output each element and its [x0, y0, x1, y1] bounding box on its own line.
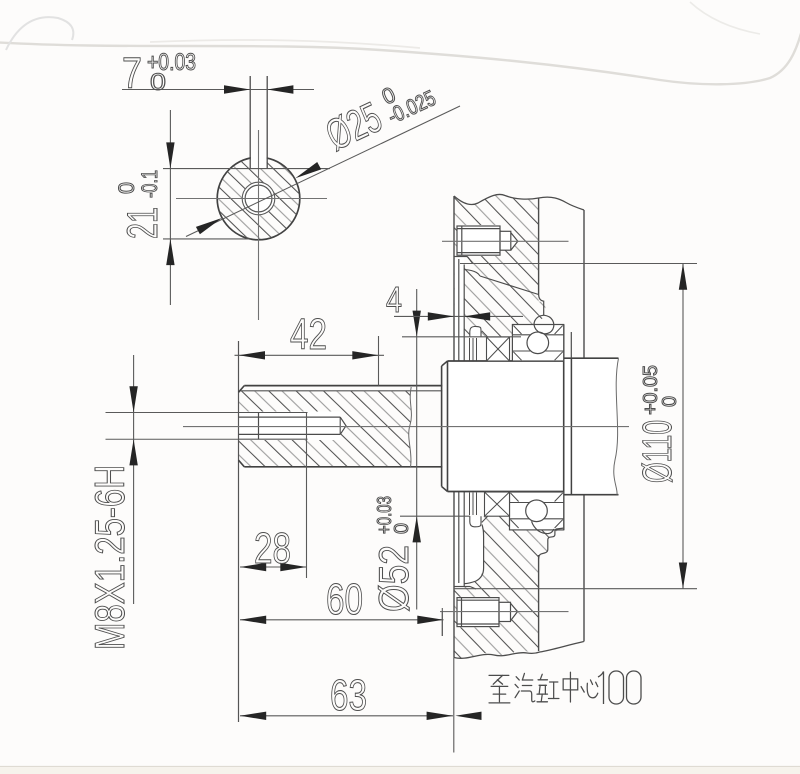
section break wavy line [409, 387, 412, 467]
hanzi qi [515, 673, 535, 701]
bottom boss chamfer [470, 587, 476, 590]
hatch bottom staircase patch [539, 528, 564, 555]
arrow 4 right [464, 312, 490, 320]
spigot chamfer bottom [442, 487, 448, 492]
text to-cylinder-center 100 [489, 672, 598, 703]
arrow 42 right [352, 351, 378, 359]
top bearing races [512, 334, 563, 336]
top boss bottom face [454, 256, 467, 258]
bottom bearing races [510, 502, 564, 504]
svg-text:21: 21 [119, 207, 167, 239]
arrow 42 left [239, 351, 265, 359]
dimension 28 line [240, 566, 307, 568]
bottom housing left profile [465, 525, 484, 584]
dimension 21 line [169, 110, 171, 305]
shaft bottom edge [244, 466, 442, 468]
svg-text:28: 28 [254, 524, 291, 573]
wavy bottom break [454, 642, 584, 659]
hanzi gang [537, 674, 559, 702]
chamfer bottom left [239, 460, 245, 467]
svg-text:42: 42 [290, 310, 327, 359]
text dia52 +0.03/0 (rotated) [370, 496, 417, 612]
text M8X1.25-6H (rotated) [86, 465, 133, 650]
arrow dia52 top [413, 311, 421, 337]
thread major ext left top [106, 412, 239, 414]
keyway bottom / ext line 21 top [163, 168, 330, 170]
shaft hatch region [239, 391, 412, 467]
arrow 7 right [267, 85, 293, 93]
thread major ext left bottom [106, 438, 239, 440]
svg-text:0: 0 [114, 182, 139, 194]
thread end vertical / ext 28 [306, 413, 308, 579]
arrow 100 pointing left [455, 712, 481, 720]
channel line left [458, 259, 460, 583]
bottom scan band [0, 766, 800, 768]
thread major line top [239, 412, 308, 414]
top seal tab [470, 326, 481, 337]
journal step line [570, 358, 572, 495]
bottom bearing ball [526, 500, 548, 522]
wavy top break [454, 194, 584, 210]
top bearing corner ticks [513, 326, 562, 361]
web bottom edge [448, 491, 564, 493]
top bearing ball [527, 332, 549, 354]
bottom boss top face [454, 586, 470, 588]
spigot chamfer top [442, 361, 448, 366]
shaft top edge [244, 385, 442, 387]
arrow dia25 lower [196, 218, 222, 234]
svg-text:0: 0 [391, 523, 413, 534]
drill cone vertical [339, 417, 341, 434]
text 100 [598, 671, 641, 704]
svg-text:60: 60 [326, 575, 363, 624]
svg-text:4: 4 [386, 279, 402, 320]
ext line 21 bottom [163, 238, 251, 240]
bottom seal box [485, 492, 510, 516]
top bolt body [457, 226, 518, 255]
hanzi zhong [563, 672, 578, 702]
text dia25 0/-0.025 (rotated along leader) [318, 67, 442, 160]
web right face [563, 325, 565, 531]
dia52 dim line [416, 289, 418, 610]
hatch top step patch [539, 302, 546, 321]
svg-text:0: 0 [659, 396, 681, 407]
ext 63/100 below face [453, 657, 455, 752]
thread relief vertical [258, 413, 260, 440]
text dia110 +0.05/0 (rotated) [634, 365, 681, 483]
bottom bolt centerline [440, 611, 569, 613]
bearing housing edge above journal [570, 332, 572, 358]
arrow 28 left [240, 563, 266, 571]
hatch inside circle [218, 158, 299, 239]
arrow 63 left [240, 712, 266, 720]
dim 4 line [394, 315, 523, 317]
chamfer top left [239, 386, 245, 393]
dia110 ext bottom [454, 588, 697, 590]
top seal fingers [469, 338, 471, 361]
journal wavy break [614, 358, 619, 495]
arrow 60 left [240, 616, 266, 624]
inner wall top [538, 198, 540, 295]
thread major line bottom [239, 438, 308, 440]
white-out top bolt [457, 225, 501, 256]
bottom seal diagonal [482, 516, 488, 522]
arrow M8 lower [129, 439, 137, 465]
arrow 21 bottom [166, 239, 174, 265]
shaft section circle [217, 157, 300, 240]
keyway bottom line (side view) [240, 390, 442, 392]
dimension 7 line [122, 89, 314, 91]
arrow 60 right [417, 616, 443, 624]
dia110 ext top [460, 263, 697, 265]
web top edge [448, 360, 564, 362]
bottom seal fingers [469, 493, 471, 516]
arrow dia25 upper [295, 162, 321, 178]
ext 60 right [441, 611, 443, 636]
white-out bottom seal pocket [464, 516, 483, 583]
right face upper [583, 210, 585, 358]
top housing step [539, 295, 544, 316]
bottom housing staircase profile [539, 528, 564, 558]
top bearing outline [512, 325, 563, 362]
dimension 63 line [240, 715, 453, 717]
watermark swoosh top secondary [150, 40, 420, 48]
svg-text:0: 0 [150, 69, 166, 96]
watermark mark top left [6, 17, 73, 50]
bottom bearing corner ticks [511, 493, 563, 528]
dimension 60 line [240, 619, 444, 621]
bore circle chamfer [242, 182, 275, 215]
inner wall cone line [480, 276, 539, 295]
hatch bottom wall [464, 516, 538, 589]
arrow 63 right [427, 712, 453, 720]
dimension 42 line [235, 354, 385, 356]
arrow dia110 top [679, 264, 687, 290]
circle centerline horizontal [176, 198, 327, 200]
bottom seal tab [470, 516, 481, 527]
white-out keyway slot area [251, 150, 267, 168]
web body [448, 361, 564, 492]
bottom bearing outline [510, 492, 564, 530]
arrow dia52 bottom [413, 516, 421, 542]
crankcase left face [453, 196, 455, 657]
dia52 ext top [402, 336, 521, 338]
shaft left face [238, 341, 240, 722]
arrow M8 upper [129, 386, 137, 412]
bore circle inner [245, 185, 272, 212]
keyway slot left line [249, 76, 251, 169]
dia110 dim line [682, 264, 684, 589]
journal body [564, 358, 619, 495]
hanzi xin [581, 680, 598, 698]
white-out thread bore [239, 412, 347, 441]
svg-text:7: 7 [122, 49, 142, 98]
ext 42 right [378, 336, 380, 386]
svg-text:-0.1: -0.1 [137, 170, 162, 198]
right face lower [583, 495, 585, 642]
white-out bottom bolt [457, 597, 500, 628]
text 21 0/-0.1 (rotated) [114, 170, 167, 239]
watermark swoosh top [0, 30, 800, 84]
top bolt centerline [442, 240, 569, 242]
bottom bolt body [457, 598, 518, 627]
thread minor line top [239, 416, 341, 418]
white-out channel strip [455, 257, 464, 586]
keyway slot right line [266, 76, 268, 169]
journal bottom edge [564, 494, 619, 496]
svg-text:Ø52: Ø52 [370, 545, 417, 612]
top boss chamfer [467, 257, 473, 264]
arrow 28 right [280, 563, 306, 571]
arrow dia110 bottom [679, 563, 687, 589]
svg-text:63: 63 [330, 671, 367, 720]
circle centerline vertical [258, 130, 260, 320]
journal top edge [564, 357, 619, 359]
dia52 ext bottom [400, 515, 470, 517]
ext 60 right short [441, 608, 443, 636]
channel line right [463, 265, 465, 587]
svg-text:Ø110: Ø110 [634, 420, 680, 483]
arrow 4 left [428, 312, 454, 320]
thread minor line bottom [239, 433, 341, 435]
inner wall bottom [538, 555, 540, 651]
svg-text:M8X1.25-6H: M8X1.25-6H [86, 465, 133, 650]
spigot face [441, 366, 443, 487]
top seal diagonal [482, 331, 488, 337]
bottom housing ball detent dome [532, 521, 554, 533]
hatch top wall [455, 194, 539, 263]
leader line dia25 [186, 106, 460, 237]
drill cone [340, 417, 346, 434]
watermark swoosh top right [690, 2, 760, 34]
top boss fillet [464, 270, 480, 277]
main centerline [183, 426, 629, 428]
white-out center bore [242, 182, 275, 215]
M8 dim line [133, 355, 135, 604]
hanzi zhi [489, 675, 510, 703]
arrow 7 left [224, 85, 250, 93]
top seal box [487, 337, 510, 361]
web left face [447, 361, 449, 492]
top housing ball detent dome [534, 315, 554, 334]
arrow 21 top [166, 142, 174, 168]
